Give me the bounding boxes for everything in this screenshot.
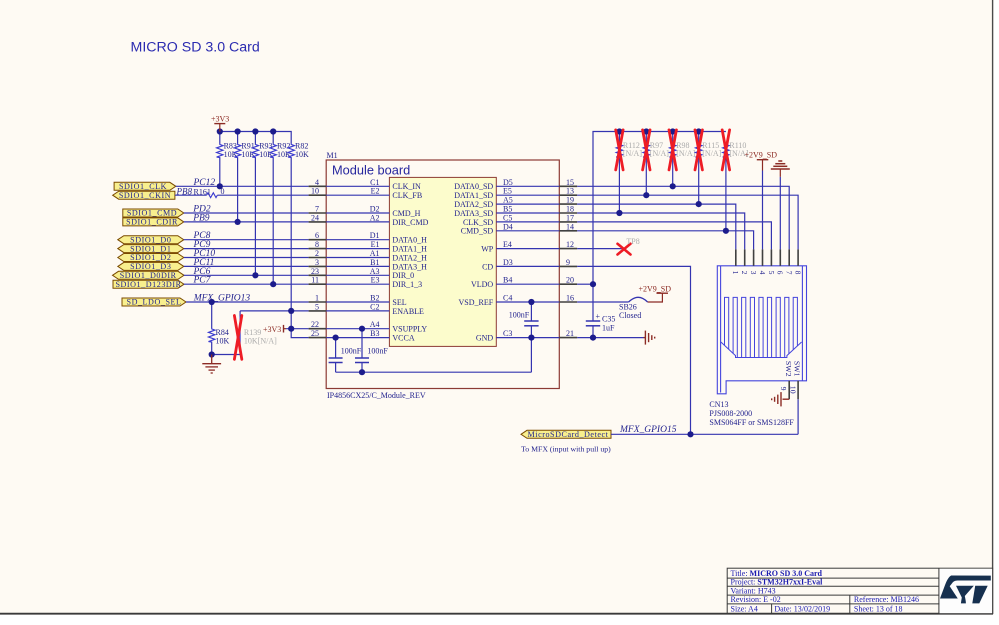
pin stub 24	[309, 221, 327, 223]
wire R98 bottom lead	[672, 158, 674, 186]
port SD_LDO_SEL	[122, 298, 186, 306]
junction CMD_SD R110	[723, 228, 729, 234]
wire R92 bottom lead	[272, 158, 274, 284]
junction +3V3 rail R93	[252, 128, 258, 134]
wire GND riser	[530, 338, 532, 373]
svg-text:4: 4	[758, 271, 767, 275]
connector pin stub 10	[797, 381, 799, 399]
svg-text:M1: M1	[327, 151, 338, 160]
svg-text:CLK_FB: CLK_FB	[392, 191, 422, 200]
svg-text:10K: 10K	[295, 150, 309, 159]
svg-text:8: 8	[794, 271, 803, 275]
svg-text:C1: C1	[370, 178, 379, 187]
svg-text:Size: A4: Size: A4	[731, 605, 758, 614]
wire cap C b bottom	[361, 363, 363, 373]
svg-text:Closed: Closed	[619, 311, 641, 320]
junction ENABLE R82	[288, 308, 294, 314]
svg-text:2: 2	[315, 249, 319, 258]
wire PD2 row	[184, 212, 309, 214]
svg-text:[N/A]: [N/A]	[623, 149, 642, 158]
wire pin10 riser	[797, 399, 799, 434]
svg-text:21: 21	[566, 329, 574, 338]
connector pin stub 4	[762, 249, 764, 265]
junction rail R98	[670, 128, 676, 134]
wire R84 top lead	[211, 302, 213, 328]
pin lead WP	[496, 248, 559, 250]
no-fit cross R98	[669, 130, 676, 170]
pin lead DATA1_SD	[496, 194, 559, 196]
svg-text:Variant: H743: Variant: H743	[731, 586, 776, 595]
no-fit cross R139	[234, 316, 241, 360]
pin stub 11	[309, 283, 327, 285]
junction GND cap	[528, 335, 534, 341]
svg-text:15: 15	[566, 178, 574, 187]
wire CMD_SD to pin3	[577, 231, 753, 250]
wire VSUPPLY row	[286, 328, 309, 330]
svg-text:18: 18	[566, 205, 574, 214]
power bars symbol	[771, 161, 790, 177]
svg-text:D3: D3	[503, 258, 513, 267]
svg-text:MicroSDCard_Detect: MicroSDCard_Detect	[528, 430, 609, 439]
svg-text:SDIO1_D0DIR: SDIO1_D0DIR	[120, 271, 177, 280]
wire cap C c bottom	[530, 326, 532, 338]
junction rail R115	[696, 128, 702, 134]
svg-text:C3: C3	[503, 329, 512, 338]
svg-text:DATA0_H: DATA0_H	[392, 236, 427, 245]
svg-text:VCCA: VCCA	[392, 334, 414, 343]
svg-text:D4: D4	[503, 222, 513, 231]
svg-text:C2: C2	[370, 302, 379, 311]
wire R98 top lead	[672, 132, 674, 144]
svg-text:DIR_0: DIR_0	[392, 271, 414, 280]
svg-text:10K: 10K	[216, 336, 230, 345]
wire +2V9_SD to pin4	[762, 171, 764, 250]
wire R115 bottom lead	[698, 158, 700, 204]
wire power bars to pin6	[779, 177, 781, 250]
svg-text:+3V3: +3V3	[211, 114, 229, 123]
svg-text:SDIO1_D123DIR: SDIO1_D123DIR	[115, 280, 181, 289]
capacitor 100nF c plates	[524, 320, 538, 322]
svg-text:1: 1	[315, 294, 319, 303]
pin lead DIR_CMD	[326, 221, 389, 223]
svg-text:WP: WP	[481, 245, 494, 254]
pin stub 14	[559, 230, 577, 232]
svg-text:SMS064FF or SMS128FF: SMS064FF or SMS128FF	[709, 418, 794, 427]
port SDIO1_CMD	[123, 209, 184, 217]
pin stub 25	[309, 337, 327, 339]
port SDIO1_CKIN	[113, 191, 175, 199]
junction VSUPPLY cap b	[359, 326, 365, 332]
svg-text:C5: C5	[503, 213, 512, 222]
svg-text:D1: D1	[370, 231, 380, 240]
svg-text:Revision: E -02: Revision: E -02	[731, 595, 781, 604]
component body U1	[389, 177, 496, 346]
port SDIO1_D2	[118, 254, 184, 262]
svg-text:VSD_REF: VSD_REF	[459, 298, 494, 307]
pin stub 1	[309, 301, 327, 303]
wire PC12 row	[176, 185, 309, 187]
pin lead CMD_H	[326, 212, 389, 214]
pin stub 21	[559, 337, 577, 339]
pin lead DATA1_H	[326, 248, 389, 250]
junction VLDO rail	[590, 281, 596, 287]
pin lead VLDO	[496, 283, 559, 285]
wire PC6 row	[184, 274, 309, 276]
svg-text:DATA1_SD: DATA1_SD	[454, 191, 493, 200]
wire PC9 row	[184, 248, 309, 250]
connector pin stub 1	[735, 249, 737, 265]
wire PB8 row left	[175, 194, 207, 196]
svg-text:100nF: 100nF	[367, 347, 388, 356]
pin lead CD	[496, 265, 559, 267]
svg-text:10K[N/A]: 10K[N/A]	[244, 336, 277, 345]
junction +3V3 rail R83	[217, 128, 223, 134]
svg-text:Sheet: 13 of 18: Sheet: 13 of 18	[854, 605, 903, 614]
svg-text:E1: E1	[371, 240, 380, 249]
ground below R84	[202, 355, 221, 374]
pin stub 12	[559, 248, 577, 250]
resistor R97 not fitted	[643, 141, 669, 158]
wire VSD_REF to cap C c	[530, 302, 532, 321]
svg-text:+: +	[596, 312, 601, 321]
wire R91 top lead	[237, 132, 239, 144]
wire C35 bottom	[592, 326, 594, 338]
junction R84 bottom	[209, 351, 215, 357]
wire R139 bottom lead	[239, 349, 241, 355]
connector CN13 contact comb	[721, 297, 802, 357]
wire R112 top lead	[618, 132, 620, 144]
svg-text:To MFX (input with pull up): To MFX (input with pull up)	[521, 445, 611, 454]
svg-text:20: 20	[566, 276, 574, 285]
pin stub 9	[559, 265, 577, 267]
junction VSUPPLY +3V3	[288, 326, 294, 332]
svg-text:IP4856CX25/C_Module_REV: IP4856CX25/C_Module_REV	[327, 391, 426, 400]
pin lead DATA3_SD	[496, 212, 559, 214]
test point TP8 cross	[618, 244, 631, 255]
pin lead DATA2_SD	[496, 203, 559, 205]
svg-text:[N/A]: [N/A]	[676, 149, 695, 158]
svg-text:VLDO: VLDO	[471, 280, 493, 289]
svg-text:A2: A2	[370, 213, 380, 222]
power +2V9_SD top	[745, 150, 778, 170]
svg-text:7: 7	[785, 271, 794, 275]
pin lead SEL	[326, 301, 389, 303]
junction rail R97	[643, 128, 649, 134]
no-fit cross R97	[643, 130, 650, 170]
junction DATA2_SD R115	[696, 201, 702, 207]
wire R83 top lead	[219, 132, 221, 144]
pin lead CLK_IN	[326, 185, 389, 187]
svg-text:5: 5	[767, 271, 776, 275]
pin lead CLK_SD	[496, 221, 559, 223]
svg-text:[N/A]: [N/A]	[702, 149, 721, 158]
svg-text:16: 16	[566, 294, 574, 303]
wire R93 top lead	[254, 132, 256, 144]
wire DATA2_SD to pin1	[577, 204, 736, 249]
svg-text:C4: C4	[503, 294, 512, 303]
wire PC11 row	[184, 265, 309, 267]
junction PC7 R92	[270, 281, 276, 287]
resistor R82	[288, 141, 309, 159]
ground right of C35	[644, 331, 655, 345]
pin stub 20	[559, 283, 577, 285]
svg-text:PJS008-2000: PJS008-2000	[709, 409, 752, 418]
svg-text:3: 3	[749, 271, 758, 275]
wire R115 top lead	[698, 132, 700, 144]
junction PB9 R91	[235, 219, 241, 225]
svg-text:SEL: SEL	[392, 298, 406, 307]
capacitor C35 labels	[596, 312, 616, 333]
svg-text:19: 19	[566, 196, 574, 205]
wire DATA1_SD to pin8	[577, 195, 798, 249]
pin stub 23	[309, 274, 327, 276]
svg-text:9: 9	[779, 387, 788, 391]
pin stub 2	[309, 257, 327, 259]
svg-text:E3: E3	[371, 276, 380, 285]
sheet border right	[992, 0, 994, 614]
svg-text:GND: GND	[476, 334, 494, 343]
wire WP to TP8	[577, 248, 626, 250]
wire VSUPPLY to cap C b	[361, 329, 363, 358]
svg-text:SB26: SB26	[619, 303, 637, 312]
junction DATA0_SD R98	[670, 183, 676, 189]
connector CN13 body	[717, 266, 806, 394]
capacitor 100nF a plates	[329, 357, 343, 359]
svg-text:C35: C35	[602, 315, 615, 324]
svg-text:SDIO1_D1: SDIO1_D1	[130, 244, 171, 253]
svg-text:SDIO1_D3: SDIO1_D3	[130, 262, 171, 271]
svg-text:10: 10	[789, 386, 798, 394]
svg-text:24: 24	[311, 213, 319, 222]
junction +3V3 rail R91	[235, 128, 241, 134]
junction rail R112	[616, 128, 622, 134]
svg-text:9: 9	[566, 258, 570, 267]
svg-text:+2V9_SD: +2V9_SD	[639, 284, 672, 293]
svg-text:A3: A3	[370, 267, 380, 276]
svg-text:SDIO1_CDIR: SDIO1_CDIR	[126, 218, 178, 227]
svg-text:B1: B1	[370, 258, 379, 267]
pin stub 8	[309, 248, 327, 250]
wire R92 top lead	[272, 132, 274, 144]
resistor R110 not fitted	[723, 141, 749, 158]
svg-text:B4: B4	[503, 276, 512, 285]
ground at connector pin 9	[772, 392, 790, 406]
logo cell background	[940, 569, 993, 613]
svg-text:12: 12	[566, 240, 574, 249]
resistor R84	[209, 328, 230, 346]
svg-text:DATA2_H: DATA2_H	[392, 253, 427, 262]
wire cap C a bottom	[335, 363, 337, 373]
pin lead DATA3_H	[326, 265, 389, 267]
wire DATA3_SD to pin2	[577, 213, 745, 249]
svg-text:+2V9_SD: +2V9_SD	[745, 150, 778, 159]
pin lead GND	[496, 337, 559, 339]
svg-text:1uF: 1uF	[602, 323, 615, 332]
svg-text:25: 25	[311, 329, 319, 338]
wire PC8 row	[184, 239, 309, 241]
wire ENABLE row	[240, 310, 309, 312]
junction VCCA cap a	[333, 335, 339, 341]
wire CLK_SD to pin5	[577, 222, 771, 250]
resistor R161	[194, 187, 225, 197]
pin stub 4	[309, 185, 327, 187]
svg-text:100nF: 100nF	[509, 310, 530, 319]
svg-text:A1: A1	[370, 249, 380, 258]
junction PC6 R93	[252, 272, 258, 278]
wire PC10 row	[184, 257, 309, 259]
svg-text:Date: 13/02/2019: Date: 13/02/2019	[774, 605, 830, 614]
pin stub 7	[309, 212, 327, 214]
svg-text:[N/A]: [N/A]	[650, 149, 669, 158]
svg-text:DATA3_SD: DATA3_SD	[454, 209, 493, 218]
svg-text:CD: CD	[482, 262, 493, 271]
svg-text:SDIO1_D2: SDIO1_D2	[130, 253, 171, 262]
svg-text:+3V3: +3V3	[263, 325, 281, 334]
svg-text:2: 2	[740, 271, 749, 275]
wire ground rail under caps	[336, 371, 532, 373]
wire +3V3 rail top	[220, 132, 291, 144]
wire R97 bottom lead	[645, 158, 647, 195]
svg-text:100nF: 100nF	[341, 347, 362, 356]
svg-text:SW2: SW2	[784, 361, 793, 377]
svg-text:11: 11	[311, 276, 319, 285]
connector pin stub 8	[797, 249, 799, 265]
power +3V3 top	[211, 114, 229, 131]
svg-text:B5: B5	[503, 205, 512, 214]
svg-text:D5: D5	[503, 178, 513, 187]
capacitor 100nF b plates	[355, 357, 369, 359]
svg-text:MFX_GPIO15: MFX_GPIO15	[619, 425, 677, 435]
pin lead DIR_1_3	[326, 283, 389, 285]
resistor R115 not fitted	[696, 141, 722, 158]
junction card detect	[687, 431, 693, 437]
svg-text:SDIO1_CKIN: SDIO1_CKIN	[119, 191, 171, 200]
module M1 outer box	[326, 160, 559, 389]
svg-text:SDIO1_CMD: SDIO1_CMD	[127, 209, 177, 218]
pin stub 16	[559, 301, 577, 303]
resistor R139 not fitted	[240, 317, 277, 350]
svg-text:DIR_1_3: DIR_1_3	[392, 280, 422, 289]
pin stub 18	[559, 212, 577, 214]
resistor R83	[217, 141, 238, 159]
pin stub 13	[559, 194, 577, 196]
svg-text:4: 4	[315, 178, 319, 187]
junction caps rail b	[359, 369, 365, 375]
pin lead VSD_REF	[496, 301, 559, 303]
svg-text:CN13: CN13	[709, 400, 728, 409]
svg-text:B3: B3	[370, 329, 379, 338]
connector pin stub 7	[788, 249, 790, 265]
svg-text:SW1: SW1	[793, 361, 802, 377]
pin stub 22	[309, 328, 327, 330]
wire DATA0_SD to pin7	[577, 186, 789, 249]
no-fit cross R115	[695, 130, 702, 170]
svg-text:0: 0	[221, 187, 225, 196]
port SDIO1_CLK	[114, 182, 176, 190]
wire R93 bottom lead	[254, 158, 256, 275]
pin lead DATA0_H	[326, 239, 389, 241]
svg-text:B2: B2	[370, 294, 379, 303]
wire R91 bottom lead	[237, 158, 239, 222]
svg-text:E5: E5	[503, 187, 512, 196]
pin stub 3	[309, 265, 327, 267]
wire R112 bottom lead	[618, 158, 620, 213]
junction SEL R84	[209, 299, 215, 305]
wire R139 top bend	[239, 311, 241, 317]
junction VSD_REF cap	[528, 299, 534, 305]
svg-text:ENABLE: ENABLE	[392, 307, 424, 316]
solder bridge SB26 arc	[629, 297, 648, 302]
svg-text:3: 3	[315, 258, 319, 267]
svg-text:10: 10	[311, 187, 319, 196]
svg-text:Reference: MB1246: Reference: MB1246	[854, 595, 919, 604]
svg-text:CMD_SD: CMD_SD	[461, 227, 494, 236]
pin lead CMD_SD	[496, 230, 559, 232]
port SDIO1_D0DIR	[113, 271, 185, 279]
resistor R98 not fitted	[670, 141, 696, 158]
pin lead ENABLE	[326, 310, 389, 312]
pin stub 15	[559, 185, 577, 187]
svg-text:DATA2_SD: DATA2_SD	[454, 200, 493, 209]
resistor R93	[252, 141, 273, 159]
svg-text:D2: D2	[370, 205, 380, 214]
pin lead DATA2_H	[326, 257, 389, 259]
junction GND C35	[590, 335, 596, 341]
svg-text:A5: A5	[503, 196, 513, 205]
capacitor C35 plates	[586, 321, 600, 326]
svg-text:SDIO1_D0: SDIO1_D0	[130, 235, 171, 244]
junction PC12 R83	[217, 183, 223, 189]
svg-text:1: 1	[731, 271, 740, 275]
svg-text:VSUPPLY: VSUPPLY	[392, 325, 427, 334]
wire GND row	[577, 337, 643, 339]
port SDIO1_D123DIR	[113, 280, 184, 288]
svg-text:SDIO1_CLK: SDIO1_CLK	[119, 182, 167, 191]
port SDIO1_CDIR	[123, 218, 184, 226]
wire CD down to card detect	[577, 266, 690, 434]
port SDIO1_D0	[118, 236, 184, 244]
svg-text:22: 22	[311, 320, 319, 329]
svg-text:R161: R161	[194, 188, 211, 197]
no-fit cross R110	[722, 130, 729, 170]
wire pull-up rail top	[593, 132, 726, 322]
junction DATA3_SD R112	[616, 210, 622, 216]
connector pin stub 5	[770, 249, 772, 265]
svg-text:CMD_H: CMD_H	[392, 209, 420, 218]
svg-text:7: 7	[315, 205, 319, 214]
junction +3V3 rail R92	[270, 128, 276, 134]
sheet border bottom	[0, 613, 993, 615]
pin stub 5	[309, 310, 327, 312]
svg-text:DATA0_SD: DATA0_SD	[454, 182, 493, 191]
svg-text:SD_LDO_SEL: SD_LDO_SEL	[127, 298, 182, 307]
wire SEL row	[186, 301, 309, 303]
connector pin stub 2	[744, 249, 746, 265]
wire card detect row	[611, 433, 798, 435]
pin lead DIR_0	[326, 274, 389, 276]
wire R97 top lead	[645, 132, 647, 144]
svg-text:17: 17	[566, 213, 574, 222]
svg-text:E2: E2	[371, 187, 380, 196]
wire VLDO to pull-up rail	[577, 283, 593, 285]
wire R83 bottom lead	[219, 158, 221, 186]
svg-text:TP8: TP8	[626, 237, 639, 246]
wire R110 bottom lead	[725, 158, 727, 231]
svg-text:14: 14	[566, 222, 574, 231]
port SDIO1_D3	[118, 262, 184, 270]
pin stub 17	[559, 221, 577, 223]
connector pin stub 6	[779, 249, 781, 265]
